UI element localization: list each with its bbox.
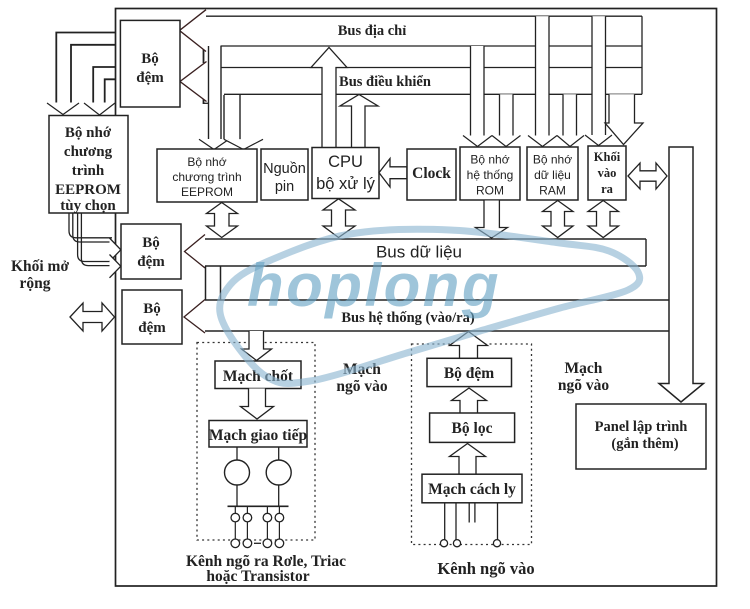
box Bo loc: [430, 413, 515, 442]
down arrow system bus to Mach chot: [242, 331, 272, 361]
svg-text:Nguồn: Nguồn: [263, 161, 306, 177]
double arrow IO to data bus: [588, 201, 619, 238]
double arrow EEPROM mid to data bus: [207, 203, 238, 238]
svg-text:hoplong: hoplong: [247, 252, 501, 319]
output bar: [228, 505, 289, 507]
output contact column 1: [231, 506, 240, 547]
svg-text:đệm: đệm: [136, 70, 164, 86]
arrowhead into ROM left: [463, 136, 492, 147]
arrowhead into IO left: [585, 135, 612, 146]
arrowhead into EEPROM mid left: [199, 139, 229, 149]
wire giao tiep to relay 2: [278, 447, 280, 460]
tall down arrow to Panel: [659, 147, 704, 402]
input wire 4 short: [474, 503, 476, 523]
svg-text:Bộ lọc: Bộ lọc: [452, 420, 493, 437]
left loop wire 2: [71, 45, 116, 103]
bus dieu khien bottom line L5: [224, 93, 642, 95]
wire pair between buses: [205, 266, 207, 300]
arrow bus dia chi into Bo dem 1: [180, 10, 207, 52]
svg-text:Khối mở: Khối mở: [11, 258, 70, 275]
ROM drop pair from L3: [471, 46, 485, 136]
svg-text:RAM: RAM: [539, 184, 566, 198]
IO drop pair from L2: [592, 16, 606, 135]
input wire 3 short: [468, 503, 470, 523]
box ROM: [460, 147, 520, 200]
input wire 1: [444, 503, 446, 540]
box RAM: [527, 147, 578, 200]
output contact column 4: [275, 506, 284, 547]
svg-text:Bộ nhớ: Bộ nhớ: [65, 125, 112, 141]
input terminal 3: [493, 540, 500, 547]
wire channel A left: [209, 46, 222, 139]
svg-text:rộng: rộng: [20, 275, 51, 292]
svg-text:Bộ: Bộ: [143, 301, 161, 317]
svg-text:trình: trình: [72, 163, 105, 179]
arrowhead into EEPROM left box b: [84, 103, 115, 115]
svg-text:chương: chương: [64, 144, 113, 160]
svg-text:đệm: đệm: [137, 254, 165, 270]
svg-text:Bộ: Bộ: [142, 235, 160, 251]
svg-text:CPU: CPU: [328, 153, 363, 171]
svg-text:Bộ nhớ: Bộ nhớ: [533, 153, 572, 167]
wire stub between bus arrows: [203, 48, 205, 63]
svg-text:pin: pin: [275, 179, 294, 195]
wire channel B: [224, 95, 240, 139]
input wire 2: [455, 503, 457, 540]
svg-text:ngõ vào: ngõ vào: [558, 377, 609, 394]
up arrow Bo loc to Bo dem: [452, 388, 487, 413]
svg-text:Bus địa chỉ: Bus địa chỉ: [338, 23, 407, 39]
input terminal 1: [440, 540, 447, 547]
svg-text:chương trình: chương trình: [172, 170, 241, 184]
svg-text:dữ liệu: dữ liệu: [534, 168, 571, 182]
left loop wire 3: [93, 67, 115, 103]
svg-text:đệm: đệm: [138, 320, 166, 336]
wire relay 1 down: [236, 485, 238, 506]
left loop wire 4: [105, 79, 116, 102]
outer frame: [116, 9, 717, 587]
svg-text:Khối: Khối: [594, 150, 621, 164]
wire EEPROM left down to Bo dem 2 lower: [78, 213, 112, 262]
expansion double arrow left of frame: [70, 303, 115, 331]
svg-text:ra: ra: [601, 182, 614, 196]
system bus band: [205, 299, 669, 301]
dash between contact pairs: [254, 542, 261, 544]
box Bo dem 1: [120, 20, 180, 107]
svg-text:Mạch giao tiếp: Mạch giao tiếp: [209, 427, 307, 444]
double arrow CPU to data bus: [323, 199, 355, 238]
svg-text:vào: vào: [598, 166, 617, 180]
svg-text:ngõ vào: ngõ vào: [336, 378, 387, 395]
RAM drop pair from L5: [563, 94, 577, 135]
svg-text:(gắn thêm): (gắn thêm): [611, 436, 678, 452]
svg-text:Bộ nhớ: Bộ nhớ: [187, 155, 226, 169]
box Bo dem 2: [121, 224, 181, 279]
IO fat down arrow from L5: [605, 94, 643, 144]
box EEPROM tuy chon: [49, 116, 128, 214]
arrowhead into ROM right: [492, 136, 521, 147]
arrow system bus into Bo dem 3: [184, 300, 205, 334]
CPU short up arrow to control bus: [340, 95, 378, 148]
box Bo dem 3: [122, 290, 182, 344]
box Panel lap trinh: [576, 404, 706, 469]
bus right end vertical: [641, 16, 643, 94]
box Mach cach ly: [422, 474, 522, 503]
relay circle 1: [225, 460, 250, 485]
down arrow Mach chot to Mach giao tiep: [241, 389, 274, 420]
data bus band: [205, 238, 646, 240]
svg-text:Clock: Clock: [412, 165, 451, 182]
svg-text:Bộ: Bộ: [141, 51, 159, 67]
svg-text:EEPROM: EEPROM: [55, 182, 121, 198]
up arrow Mach cach ly to Bo loc: [450, 444, 486, 475]
RAM drop pair from L2: [536, 16, 550, 135]
watermark hoplong logo ellipse: [220, 229, 640, 383]
dotted box Kenh ngo vao: [412, 344, 532, 545]
box Bo nho chuong trinh EEPROM: [157, 149, 257, 202]
arrowhead b into Bo dem 2: [110, 255, 121, 278]
svg-text:Mạch cách ly: Mạch cách ly: [428, 481, 516, 498]
arrow Clock to CPU: [379, 159, 407, 188]
ROM drop pair from L5: [500, 94, 514, 135]
input wire 5: [497, 503, 499, 540]
svg-text:Mạch: Mạch: [565, 360, 603, 377]
wire EEPROM left down to Bo dem 2 upper: [69, 213, 112, 238]
svg-text:hệ thống: hệ thống: [467, 168, 514, 182]
svg-text:bộ xử lý: bộ xử lý: [316, 175, 375, 193]
box Nguon pin: [261, 149, 308, 200]
left loop wire 1 from Bo dem 1: [56, 33, 115, 103]
svg-text:Kênh ngõ vào: Kênh ngõ vào: [437, 559, 534, 578]
up arrow Bo dem in to system bus: [450, 332, 488, 359]
arrowhead into RAM left: [528, 136, 557, 147]
svg-text:EEPROM: EEPROM: [181, 185, 233, 199]
arrowhead a into Bo dem 2: [110, 238, 121, 262]
dotted box Kenh ngo ra: [197, 343, 315, 541]
svg-text:Bộ đệm: Bộ đệm: [444, 365, 494, 382]
box Mach chot: [215, 361, 301, 389]
CPU tall up arrow to address bus: [311, 48, 347, 148]
arrow bus dieu khien into Bo dem 1: [180, 62, 207, 102]
svg-text:Bộ nhớ: Bộ nhớ: [470, 153, 509, 167]
arrowhead into RAM right: [557, 136, 584, 147]
output contact column 2: [243, 506, 252, 547]
svg-text:tùy chọn: tùy chọn: [60, 198, 116, 214]
bus dia chi top line L2: [202, 15, 642, 17]
svg-text:Bus điều khiển: Bus điều khiển: [339, 74, 431, 90]
output contact column 3: [263, 506, 272, 547]
box Clock: [407, 149, 456, 200]
wire relay 2 down: [278, 485, 280, 506]
down arrow ROM to data bus: [476, 201, 508, 239]
arrowhead into EEPROM left box a: [47, 103, 79, 115]
wire stub below second bus arrow: [203, 95, 205, 104]
box Khoi vao ra: [588, 146, 626, 200]
bus dieu khien top line L4: [221, 67, 643, 69]
svg-text:ROM: ROM: [476, 184, 504, 198]
double arrow RAM to data bus: [543, 201, 574, 238]
svg-text:hoặc Transistor: hoặc Transistor: [206, 568, 309, 585]
svg-text:Panel lập trình: Panel lập trình: [595, 419, 688, 435]
relay circle 2: [266, 460, 291, 485]
box Mach giao tiep: [209, 421, 307, 448]
arrowhead into EEPROM mid right: [224, 139, 263, 149]
box CPU: [312, 148, 379, 199]
box Bo dem in: [427, 358, 512, 386]
input terminal 2: [453, 540, 460, 547]
wire giao tiep to relay 1: [236, 447, 238, 460]
bus dia chi bottom line L3: [221, 45, 643, 47]
arrow data bus into Bo dem 2: [185, 235, 206, 269]
double arrow IO to right shaft: [628, 163, 667, 189]
